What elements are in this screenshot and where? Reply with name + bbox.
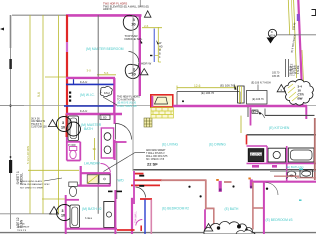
WIC closet shelf lines blue (64, 79, 114, 106)
cloud hatch (288, 84, 298, 101)
right jog wall (305, 106, 307, 119)
window note left (20, 180, 50, 189)
svg-text:10: 10 (61, 126, 65, 130)
living wall left (133, 171, 135, 204)
bath2 left wall red (66, 199, 79, 201)
svg-text:(E) DINING: (E) DINING (209, 142, 226, 146)
svg-text:HDR W: HDR W (103, 7, 112, 11)
svg-text:3: 3 (62, 209, 64, 213)
svg-text:(E) BATH: (E) BATH (225, 207, 239, 211)
door arc hall (136, 187, 146, 198)
svg-text:BATH: BATH (84, 127, 93, 131)
svg-text:(E) 106.76: (E) 106.76 (220, 83, 234, 87)
svg-text:T WALL STUDS V: T WALL STUDS V (146, 152, 165, 155)
wall seg mid (224, 181, 232, 183)
svg-text:METAL PER MANUFACT SPEC: METAL PER MANUFACT SPEC (20, 183, 50, 186)
FAU cloud (100, 87, 112, 97)
svg-text:(M) BATH #2: (M) BATH #2 (82, 207, 102, 211)
black jamb ticks (139, 175, 144, 177)
patio edge lines (177, 92, 240, 106)
svg-text:10: 10 (61, 214, 65, 218)
kitchen boundary left (247, 107, 249, 117)
fence post lines (285, 59, 287, 77)
balloon bath2 (57, 205, 73, 221)
laundry lower marks (108, 191, 113, 193)
pocket door blue (144, 200, 146, 235)
rotated site texts (272, 22, 298, 78)
hall wall magenta x132 (131, 198, 133, 234)
svg-text:36 X 36: 36 X 36 (17, 224, 25, 226)
section marker (267, 29, 277, 43)
svg-text:SINGLE HUNG GLASS: SINGLE HUNG GLASS (20, 180, 42, 183)
svg-text:1 BD: 1 BD (101, 117, 107, 120)
gray grid vertical x98 (97, 15, 99, 214)
svg-text:5-6: 5-6 (104, 71, 109, 75)
svg-text:BW: BW (298, 97, 303, 101)
bath wall right vertical (113, 114, 115, 124)
left line break marks (0, 28, 12, 174)
top text block (103, 2, 149, 12)
svg-text:C GATE 5: C GATE 5 (292, 65, 295, 76)
balloons bath (57, 117, 72, 132)
laundry door arc magenta (101, 163, 111, 172)
svg-text:2X4 WALL: 2X4 WALL (135, 211, 138, 223)
bracket top right (312, 10, 316, 16)
svg-text:105 48: 105 48 (272, 75, 280, 78)
revision cloud (284, 80, 313, 106)
vanity (101, 128, 113, 158)
svg-text:(E) LIVING: (E) LIVING (162, 142, 179, 146)
door arc master bath (116, 124, 132, 140)
porch hatch below (151, 108, 173, 118)
svg-text:(E) STOVE: (E) STOVE (250, 152, 263, 156)
gray grid vertical x133 (132, 15, 134, 171)
bath bottom wall salmon (274, 175, 299, 177)
shower (104, 202, 115, 228)
svg-text:TW 8 P 8: TW 8 P 8 (17, 230, 27, 232)
svg-text:12-6: 12-6 (194, 84, 201, 88)
toilet above bath2 (69, 182, 78, 187)
tub bath2 (70, 205, 80, 228)
kitchen lower wall segs (247, 162, 317, 164)
svg-text:(E) 106 N 7 HIGH: (E) 106 N 7 HIGH (251, 82, 271, 85)
top patio dimension (177, 83, 237, 90)
svg-text:W/D: W/D (118, 178, 125, 182)
entry tile hatch (144, 118, 152, 127)
leader diagonal (104, 153, 136, 172)
black dots (188, 186, 190, 188)
svg-text:(E) BEDROOM #3: (E) BEDROOM #3 (266, 218, 293, 222)
cyan tick marks right (299, 169, 303, 201)
main gray wall (134, 169, 317, 171)
svg-text:(E) BEDROOM #2: (E) BEDROOM #2 (162, 207, 189, 211)
porch structure (151, 95, 173, 107)
fridge/tub unit (288, 148, 314, 162)
WIC room walls (66, 78, 122, 115)
closet wall x139 (139, 15, 141, 96)
svg-text:F.A.U: F.A.U (80, 109, 87, 113)
bushes bottom (204, 221, 255, 234)
balloon tag 3/10 mid (125, 64, 140, 78)
bedroom3 top wall magenta (253, 181, 316, 183)
small box under WIC (100, 115, 110, 120)
bath top right wall (115, 141, 127, 143)
note block right of WIC (117, 96, 140, 108)
window insert violet (66, 42, 68, 52)
svg-text:5 1/2 HR MIN: 5 1/2 HR MIN (26, 146, 30, 164)
existing wall red-salmon horizontal (134, 179, 162, 181)
svg-text:3-0: 3-0 (87, 69, 92, 73)
svg-text:FRIDGE SPL: FRIDGE SPL (125, 37, 143, 41)
svg-text:WALL JON W/G N75: WALL JON W/G N75 (146, 155, 168, 158)
note block right mid (146, 149, 168, 161)
svg-text:10: 10 (131, 72, 136, 77)
svg-text:VALTERA W: VALTERA W (17, 226, 30, 229)
olive dimension texts (26, 69, 109, 165)
triangle bath (48, 120, 56, 127)
triangle marker mid (140, 69, 148, 75)
main upper wall of living area (173, 105, 307, 107)
svg-text:NOT DIRECT TO SHWR: NOT DIRECT TO SHWR (20, 187, 43, 189)
kitchen top wall (247, 134, 317, 136)
svg-text:22 SF: 22 SF (147, 161, 158, 166)
svg-text:HDR W: HDR W (141, 62, 151, 66)
bath2 red bottom stub (117, 229, 135, 231)
triangle bath2 (50, 207, 59, 215)
red stub walls near laundry (134, 173, 144, 175)
toilet room walls (67, 141, 81, 143)
svg-text:(M) MASTER BEDROOM: (M) MASTER BEDROOM (86, 47, 124, 51)
kitchen north wall (265, 114, 315, 116)
door arc bottom hall (136, 219, 143, 225)
kitchen mid wall (247, 145, 268, 147)
red jamb bottom (140, 226, 142, 232)
sink unit (268, 148, 286, 162)
svg-text:FAU: FAU (104, 91, 110, 95)
window seat rect dining (238, 86, 245, 103)
olive parallels (288, 0, 289, 35)
gray horizontal y105.5 (0, 104, 316, 106)
tub bath right (300, 170, 313, 178)
kitchen door arc (253, 111, 265, 119)
door arc master closet (129, 52, 139, 63)
purple marker on fence (297, 14, 300, 21)
triangle 1 (277, 85, 285, 92)
door jamb 1 (216, 179, 219, 181)
bath note block (31, 118, 47, 129)
svg-text:LAUNDRY: LAUNDRY (84, 162, 101, 166)
fridge note (125, 34, 143, 41)
bath2 bottom wall (66, 228, 117, 230)
triangle marker top (144, 11, 151, 17)
svg-text:CUSTOM 100: CUSTOM 100 (31, 126, 47, 129)
svg-text:F.A.U: F.A.U (80, 80, 87, 84)
svg-text:(E) BATH (E): (E) BATH (E) (286, 165, 303, 169)
svg-text:36: 36 (93, 147, 97, 151)
sheet bottom border (0, 232, 316, 234)
fence diagonal magenta (298, 0, 302, 106)
rotated margin notes (16, 171, 24, 228)
bedroom3 closet (252, 182, 254, 230)
WIC pole dots (69, 92, 71, 102)
window dim right of bedroom (142, 24, 163, 62)
leader arrow fridge note (140, 40, 143, 44)
svg-text:(E) KITCHEN: (E) KITCHEN (269, 126, 290, 130)
svg-text:ADD NEW SMART: ADD NEW SMART (146, 149, 166, 152)
grid tick above wall (139, 0, 141, 7)
bedroom2 closet walls (205, 180, 207, 209)
hall wall pink x151 (150, 200, 152, 235)
master bath label (81, 123, 102, 131)
leader to note (103, 97, 117, 105)
grid vertical x116.8 (116, 141, 118, 199)
tub (68, 116, 79, 141)
laundry room walls (78, 166, 111, 186)
svg-text:3: 3 (62, 121, 64, 125)
property dimension line left (0, 15, 67, 229)
toilet bath right (287, 171, 296, 176)
svg-text:(E) 106.76: (E) 106.76 (201, 91, 215, 95)
left exterior wall lower red (66, 52, 68, 114)
svg-text:10: 10 (131, 22, 136, 27)
bottom note block (17, 224, 30, 232)
gray site line (277, 34, 316, 36)
small magenta stubs below kitchen (252, 165, 259, 168)
svg-text:4024: 4024 (269, 34, 275, 38)
toilet magenta (69, 147, 77, 151)
svg-text:(E) 106.76: (E) 106.76 (252, 98, 264, 101)
planter rect (247, 91, 268, 105)
svg-text:2-6: 2-6 (144, 24, 149, 28)
svg-text:(M) W.I.C.: (M) W.I.C. (80, 93, 95, 97)
hall wall x139/152 lower (151, 96, 153, 107)
svg-text:105 4B W: 105 4B W (291, 65, 293, 76)
right wall maroon (314, 118, 316, 180)
balloon tag 3/10 top (123, 15, 138, 30)
washer dryer boxes (87, 175, 98, 184)
master bedroom top wall (66, 14, 142, 17)
door arc bedroom3 (266, 183, 279, 196)
svg-text:A MRL SDRS 22F: A MRL SDRS 22F (117, 105, 138, 108)
svg-text:b 4a a: b 4a a (85, 217, 93, 220)
svg-text:6 SLIDE: 6 SLIDE (298, 65, 300, 74)
svg-text:9-6: 9-6 (37, 92, 41, 97)
door jamb 2 (248, 178, 250, 180)
olive dimension grid verticals (28, 15, 116, 214)
left exterior wall (red) (66, 15, 68, 42)
stove (248, 149, 264, 162)
hall red stub wall (140, 198, 152, 200)
